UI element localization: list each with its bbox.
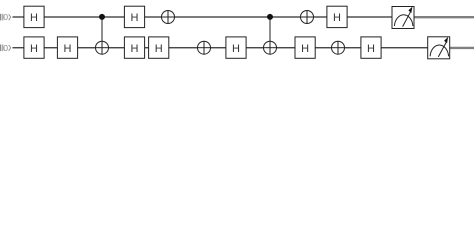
measurement M1 xyxy=(428,37,450,59)
classical wire c1 xyxy=(450,47,474,49)
CNOT1 control dot q0 xyxy=(99,14,105,20)
svg-text:H: H xyxy=(30,12,38,24)
H gate q0 #3 xyxy=(327,6,347,27)
X gate q0 (circle-plus) at x=168 xyxy=(162,11,175,24)
qubit label q1 |0> xyxy=(0,43,11,53)
H gate q1 #4 xyxy=(149,37,169,58)
wire q0 xyxy=(13,16,393,18)
svg-text:H: H xyxy=(301,43,309,55)
X gate q1 (circle-plus) at x=204 xyxy=(198,41,211,54)
H gate q1 #1 xyxy=(24,37,44,58)
CNOT1 target q1 xyxy=(96,41,109,54)
H gate q1 #2 xyxy=(57,37,77,58)
svg-text:0: 0 xyxy=(3,12,8,22)
svg-text:0: 0 xyxy=(3,43,8,53)
svg-text:H: H xyxy=(131,43,139,55)
CNOT2 target q1 xyxy=(264,41,277,54)
X gate q1 (circle-plus) at x=338 xyxy=(332,41,345,54)
svg-text:H: H xyxy=(30,43,38,55)
CNOT1 vertical line xyxy=(101,17,103,54)
H gate q1 #3 xyxy=(124,37,144,58)
svg-text:H: H xyxy=(131,12,139,24)
X gate q0 (circle-plus) at x=307 xyxy=(301,11,314,24)
classical wire c0 xyxy=(414,16,474,18)
CNOT2 control dot q0 xyxy=(267,14,273,20)
qubit label q0 |0> xyxy=(0,12,11,22)
svg-text:H: H xyxy=(333,12,341,24)
measurement M0 xyxy=(392,7,414,29)
svg-text:H: H xyxy=(155,43,163,55)
H gate q1 #5 xyxy=(226,37,246,58)
CNOT2 vertical line xyxy=(269,17,271,54)
H gate q1 #6 xyxy=(295,37,315,58)
svg-text:H: H xyxy=(232,43,240,55)
H gate q1 #7 xyxy=(361,37,381,58)
svg-text:H: H xyxy=(367,43,375,55)
wire q1 xyxy=(13,47,429,49)
H gate q0 #2 xyxy=(124,6,144,27)
H gate q0 #1 xyxy=(24,6,44,27)
svg-text:H: H xyxy=(64,43,72,55)
